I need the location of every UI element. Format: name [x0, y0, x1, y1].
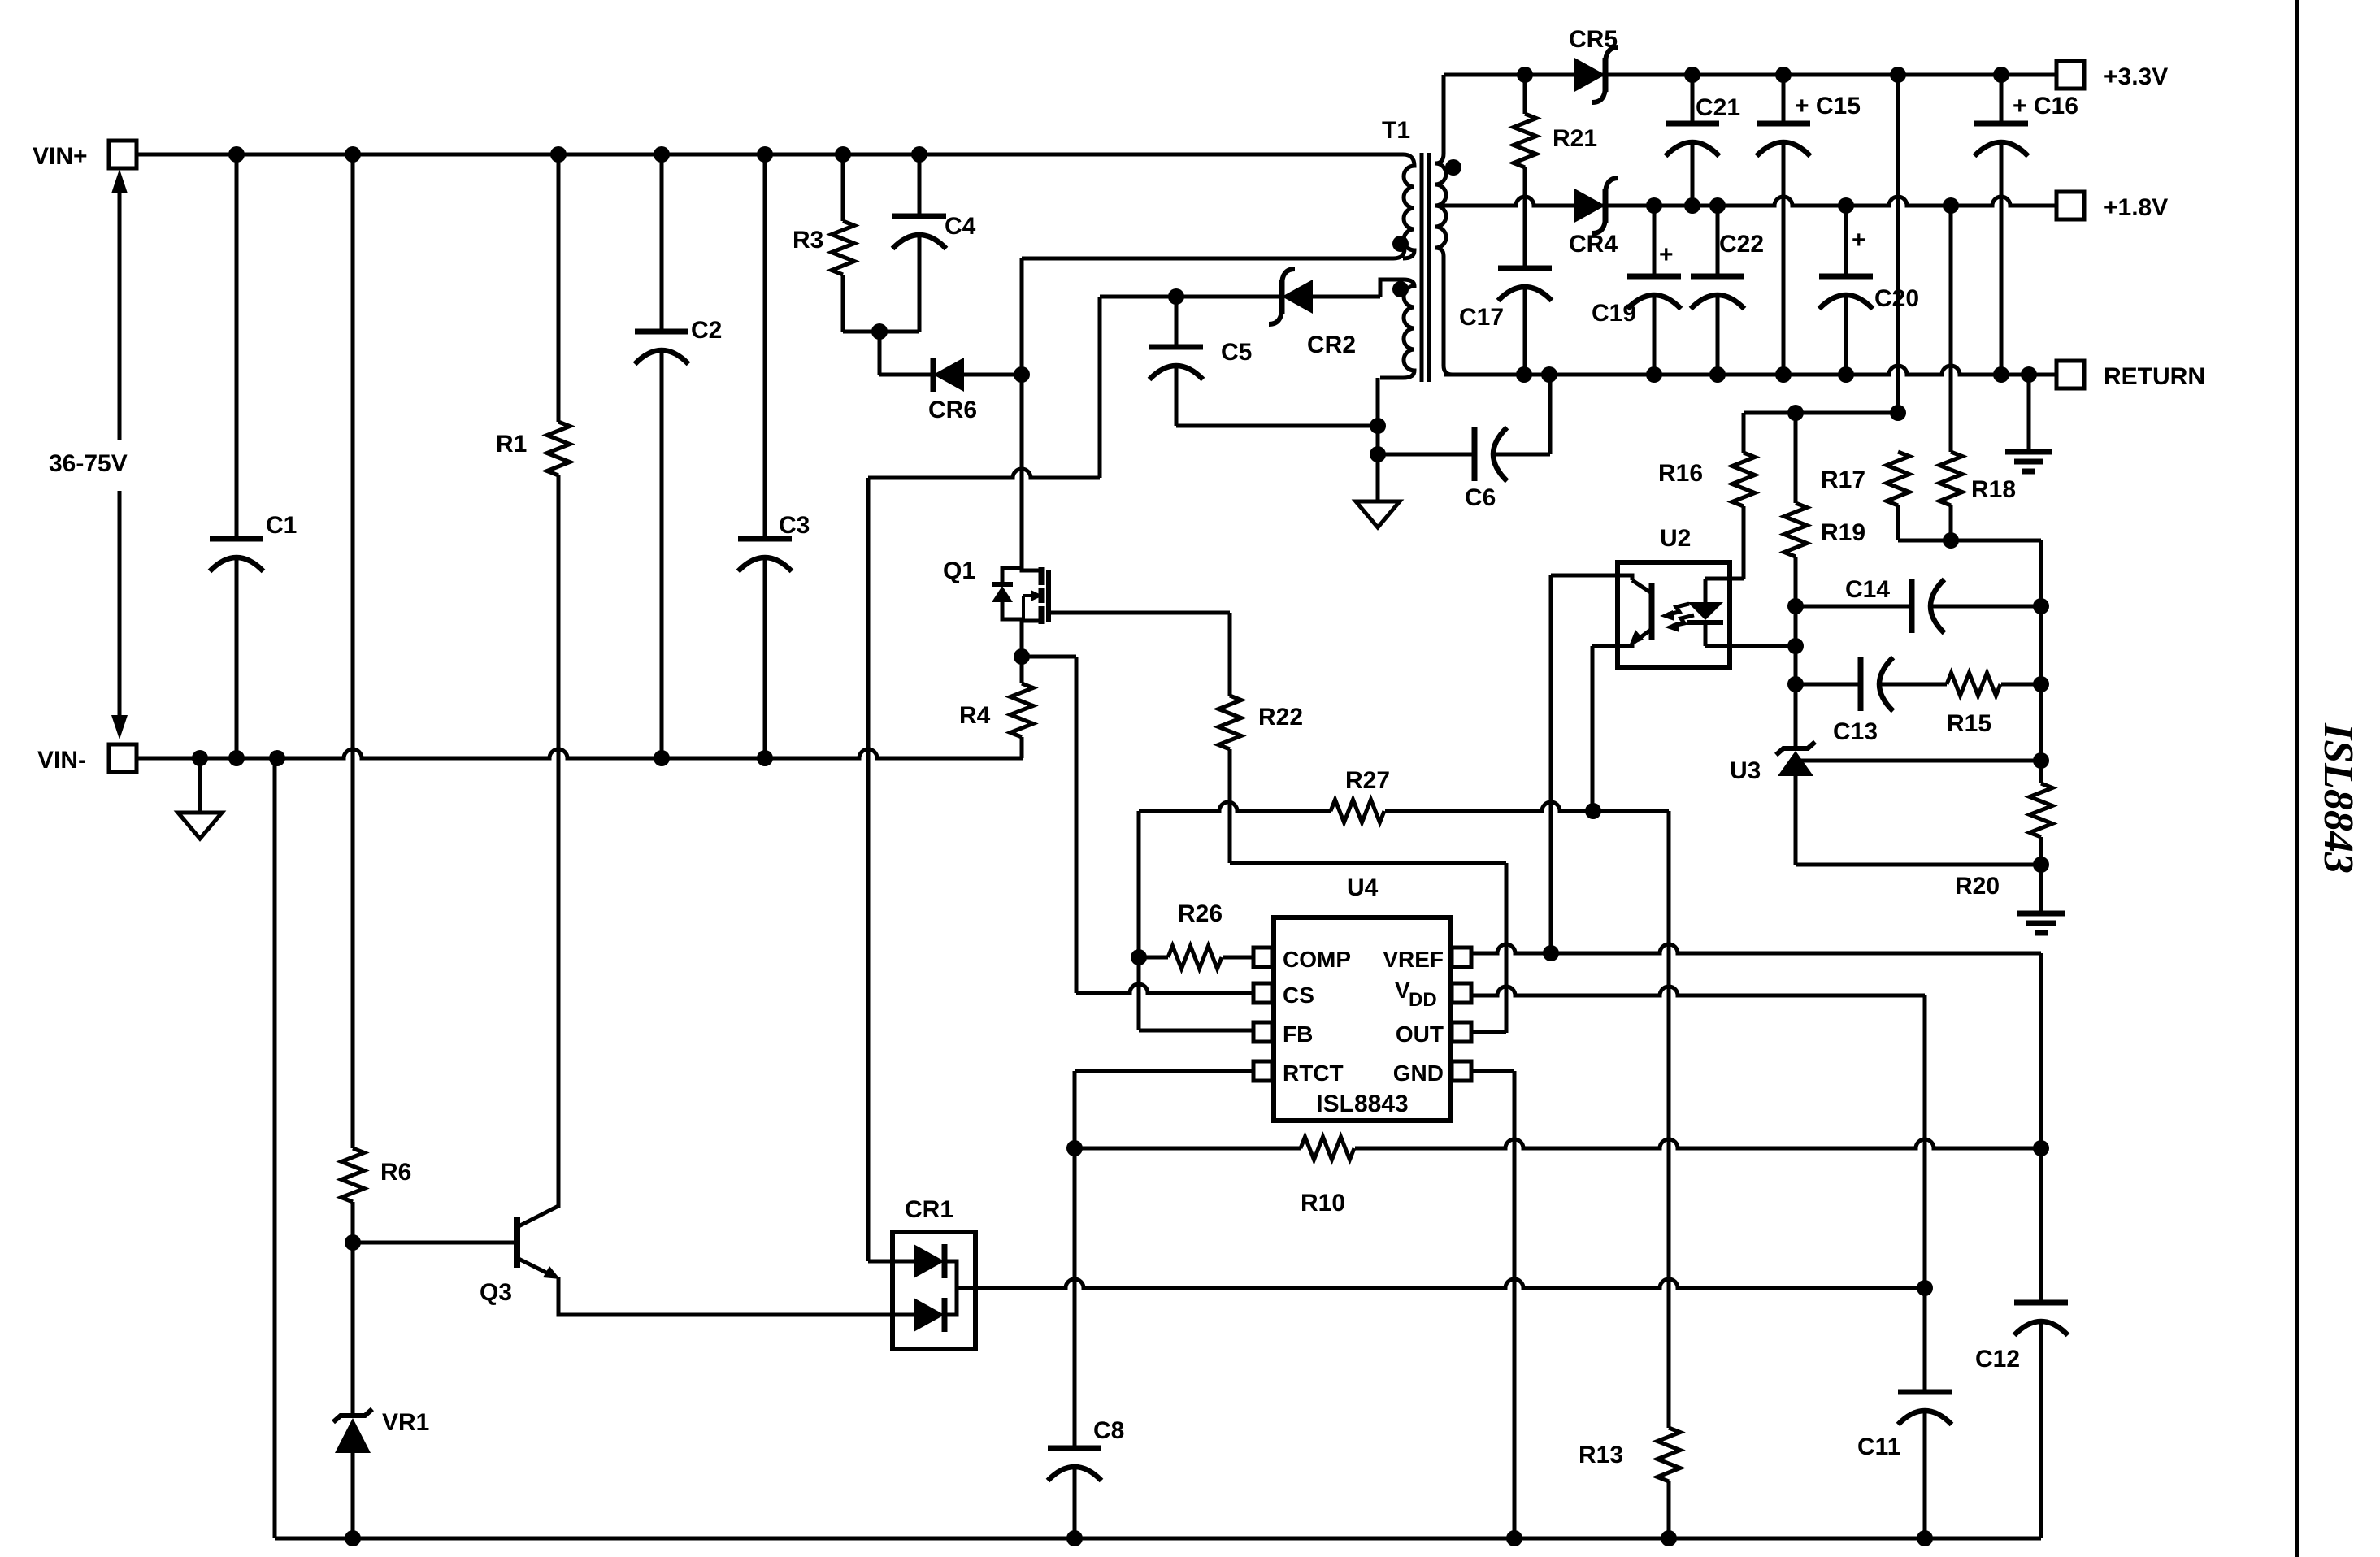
pin label COMP [1283, 947, 1351, 972]
wire R17 riser [1896, 75, 1900, 413]
wire R17R18 bottom [1898, 540, 2041, 606]
capacitor C11 [1857, 1288, 1952, 1538]
node secondary phase dot [1445, 159, 1461, 176]
resistor R4 [959, 683, 1033, 758]
pin VDD [1452, 983, 1471, 1003]
svg-text:DD: DD [1409, 989, 1437, 1011]
svg-text:R26: R26 [1178, 900, 1223, 927]
svg-text:+1.8V: +1.8V [2104, 194, 2168, 221]
pin label VDD [1395, 978, 1437, 1011]
svg-text:R22: R22 [1258, 704, 1303, 731]
svg-text:OUT: OUT [1396, 1021, 1444, 1047]
svg-text:VIN-: VIN- [37, 747, 86, 774]
resistor R3 [793, 154, 879, 332]
pin VREF [1452, 948, 1471, 967]
optocoupler U2 [1618, 525, 1730, 667]
resistor R17 [1821, 452, 1909, 540]
svg-text:C2: C2 [691, 317, 722, 344]
node VIN- rail dots [192, 750, 773, 766]
dual diode CR1 [892, 1196, 975, 1349]
wire U2 emitter [1592, 644, 1632, 811]
svg-text:R3: R3 [793, 227, 823, 254]
svg-text:C4: C4 [945, 213, 976, 240]
node R15 right [2033, 676, 2049, 692]
wire Q3 base [353, 1241, 517, 1245]
terminal RETURN [2056, 361, 2205, 390]
pin label GND [1393, 1060, 1444, 1086]
wire secondary tap [1435, 204, 1440, 208]
svg-text:C8: C8 [1093, 1417, 1124, 1444]
svg-text:C11: C11 [1857, 1433, 1900, 1460]
svg-text:CS: CS [1283, 982, 1314, 1008]
wire primary bottom [1022, 249, 1405, 258]
node 36-75V arrow [49, 169, 128, 739]
ground bias [1356, 501, 1400, 527]
svg-text:R10: R10 [1301, 1190, 1345, 1217]
node R10 right [2033, 1140, 2049, 1156]
svg-text:R27: R27 [1345, 767, 1390, 794]
svg-text:C22: C22 [1719, 231, 1764, 258]
svg-text:R19: R19 [1821, 519, 1865, 546]
wire U2 LED anode [1704, 579, 1708, 602]
svg-text:R4: R4 [959, 702, 991, 729]
svg-text:RTCT: RTCT [1283, 1060, 1344, 1086]
transistor Q3 [480, 1206, 560, 1306]
node CR6 anode [1014, 366, 1030, 383]
wire C5 bottom [1176, 424, 1378, 428]
transformer T1 bias winding [1380, 280, 1414, 378]
node C14 right [2033, 598, 2049, 614]
resistor R19 [1784, 413, 1865, 748]
svg-text:C6: C6 [1465, 484, 1496, 511]
svg-text:C14: C14 [1845, 576, 1890, 603]
node 3.3V dots [1517, 67, 2009, 83]
pin COMP [1253, 948, 1273, 967]
svg-text:C1: C1 [266, 512, 297, 539]
wire GND stub [1471, 1071, 1514, 1538]
pin OUT [1452, 1022, 1471, 1042]
capacitor C1 [210, 154, 297, 758]
pin RTCT [1253, 1061, 1273, 1081]
node bias C5 [1370, 418, 1386, 434]
node R3-C4 junction [871, 323, 888, 340]
svg-text:C21: C21 [1696, 94, 1740, 121]
svg-text:VR1: VR1 [382, 1409, 429, 1436]
capacitor C17 [1459, 268, 1552, 375]
pin label OUT [1396, 1021, 1444, 1047]
svg-text:C17: C17 [1459, 304, 1504, 331]
resistor R27 [1139, 767, 1593, 822]
wire FB-COMP vertical [1139, 811, 1253, 1030]
svg-text:C19: C19 [1592, 300, 1636, 327]
wire U3 cathode [1798, 759, 2041, 763]
transformer T1 primary winding [1382, 117, 1414, 258]
wire R27 to R13 [1593, 811, 1669, 1428]
transformer T1 secondary winding [1435, 75, 1453, 375]
svg-text:VIN+: VIN+ [33, 143, 88, 170]
wire Q3 collector [557, 1206, 561, 1210]
node Q3 base junction [345, 1234, 361, 1251]
capacitor C22 [1691, 206, 1764, 375]
svg-text:C5: C5 [1221, 339, 1252, 366]
node U3 anode right [2033, 857, 2049, 873]
resistor R10 [1075, 1137, 2041, 1217]
transformer core [1422, 153, 1429, 382]
capacitor C8 [1048, 1417, 1124, 1538]
shunt regulator U3 [1730, 684, 1815, 865]
svg-text:+: + [1852, 227, 1866, 254]
capacitor C2 [635, 154, 722, 758]
wire Q3 emitter [558, 1277, 914, 1315]
wire comp vertical [2039, 540, 2043, 783]
resistor R1 [496, 154, 570, 1208]
svg-text:R15: R15 [1947, 710, 1991, 737]
resistor R6 [341, 1148, 411, 1416]
wire R22 to OUT [1230, 863, 1506, 1033]
IC U4 box [1274, 874, 1451, 1121]
node CR2-C5 [1168, 288, 1184, 305]
svg-text:R21: R21 [1553, 125, 1597, 152]
svg-text:U2: U2 [1660, 525, 1691, 552]
wire ground stub [198, 758, 202, 813]
wire VREF line [1471, 944, 2041, 1303]
svg-text:C13: C13 [1833, 718, 1878, 745]
terminal +3.3V [2056, 61, 2168, 90]
node R18 bottom [1943, 532, 1959, 549]
wire RTCT line [1075, 1071, 1253, 1448]
svg-text:R18: R18 [1971, 476, 2016, 503]
wire RETURN rail [1444, 366, 2056, 375]
node RTCT-R10 [1066, 1140, 1083, 1156]
svg-text:ISL8843: ISL8843 [2315, 722, 2361, 874]
wire bottom rail [275, 1537, 2041, 1541]
node U3 cathode right [2033, 752, 2049, 769]
resistor R13 [1579, 1428, 1680, 1538]
wire VIN- rail [137, 749, 1023, 758]
svg-text:+ C16: + C16 [2013, 93, 2078, 119]
svg-text:U3: U3 [1730, 757, 1761, 784]
node 1.8V dots [1646, 197, 1959, 214]
wire VIN+ top rail [137, 153, 1403, 157]
transistor Q1 [943, 557, 1049, 626]
resistor R22 [1218, 696, 1303, 863]
node top rail dots [228, 146, 927, 163]
node CR1-VDD [1917, 1280, 1933, 1296]
wire CS line [1076, 984, 1253, 993]
wire U2 collector [1551, 575, 1632, 953]
wire bias lower [1376, 378, 1380, 501]
svg-text:CR6: CR6 [928, 397, 977, 423]
ground RETURN [2005, 452, 2052, 471]
diode CR6 [928, 358, 977, 423]
svg-text:C3: C3 [779, 512, 810, 539]
capacitor C15 [1757, 75, 1861, 375]
wire Q1 drain [1020, 258, 1024, 565]
wire U2 LED cathode [1705, 622, 1796, 646]
svg-text:R13: R13 [1579, 1442, 1623, 1468]
svg-text:+3.3V: +3.3V [2104, 63, 2168, 90]
wire VDD line [1471, 987, 1925, 1392]
node primary phase dot [1392, 236, 1409, 252]
svg-text:R16: R16 [1658, 460, 1703, 487]
svg-text:Q1: Q1 [943, 557, 975, 584]
svg-text:R20: R20 [1955, 873, 2000, 900]
svg-text:CR1: CR1 [905, 1196, 953, 1223]
svg-text:ISL8843: ISL8843 [1316, 1091, 1408, 1117]
node Q1 source [1014, 622, 1030, 683]
svg-text:CR2: CR2 [1307, 332, 1356, 358]
IC name ISL8843 [1316, 1091, 1408, 1117]
node VREF-collector [1543, 945, 1559, 961]
wire CS/CR1 vertical [866, 478, 871, 1261]
terminal VIN+ [33, 141, 137, 170]
node R27 right [1585, 803, 1601, 819]
wire CR1 output [957, 1279, 1925, 1288]
pin label CS [1283, 982, 1314, 1008]
terminal +1.8V [2056, 192, 2168, 221]
resistor R20 [1955, 783, 2052, 900]
svg-text:VREF: VREF [1383, 947, 1444, 972]
node R19 dots [1787, 598, 1804, 692]
wire R20 ground stub [2039, 865, 2043, 913]
wire +3.3V rail [1444, 73, 2056, 77]
diode CR5 [1569, 26, 1618, 102]
wire gate line [1050, 613, 1230, 696]
node bias C6 [1370, 446, 1386, 462]
resistor R16 [1658, 413, 1755, 579]
resistor R26 [1139, 900, 1253, 969]
node bottom dots [345, 1530, 1933, 1546]
resistor R21 [1514, 75, 1597, 268]
terminal VIN- [37, 744, 137, 774]
wire OUT stub [1471, 1030, 1506, 1034]
capacitor C6 [1378, 375, 1550, 511]
svg-text:CR5: CR5 [1569, 26, 1618, 53]
wire +1.8V rail [1440, 197, 2056, 206]
svg-text:+: + [1659, 241, 1674, 268]
capacitor C13 [1796, 657, 1947, 745]
svg-text:C12: C12 [1975, 1346, 2020, 1373]
svg-text:U4: U4 [1347, 874, 1379, 901]
ground R20 [2017, 913, 2065, 933]
capacitor C21 [1666, 75, 1740, 206]
capacitor C3 [738, 154, 810, 758]
border line [2295, 0, 2299, 1557]
wire CR6 branch [879, 332, 1022, 375]
diode CR2 [1269, 269, 1356, 358]
svg-text:36-75V: 36-75V [49, 450, 128, 477]
node RETURN dots [1516, 366, 2037, 383]
wire left branch [351, 154, 355, 1148]
svg-text:Q3: Q3 [480, 1279, 512, 1306]
wire CR2 line [1100, 295, 1380, 299]
node R26 left [1131, 949, 1147, 965]
svg-text:GND: GND [1393, 1060, 1444, 1086]
wire CR1 top entry [868, 1260, 914, 1264]
zener VR1 [333, 1409, 429, 1538]
svg-text:FB: FB [1283, 1021, 1313, 1047]
svg-text:RETURN: RETURN [2104, 363, 2205, 390]
capacitor C19 [1592, 206, 1681, 375]
capacitor C4 [879, 154, 976, 332]
node divider dots [1787, 405, 1906, 421]
svg-text:COMP: COMP [1283, 947, 1351, 972]
wire C5 left drop [868, 297, 1100, 478]
svg-text:R1: R1 [496, 431, 527, 458]
wire RETURN gnd stub [2027, 375, 2031, 452]
pin label VREF [1383, 947, 1444, 972]
capacitor C14 [1796, 576, 2041, 633]
capacitor C5 [1149, 297, 1252, 426]
wire U3 anode [1796, 863, 2041, 867]
wire source to CS [1022, 657, 1076, 993]
diode CR4 [1569, 178, 1618, 258]
svg-text:R17: R17 [1821, 466, 1865, 493]
node bias phase dot [1392, 281, 1409, 297]
wire divider top line [1744, 411, 1898, 415]
ground [178, 813, 222, 839]
wire left drop [273, 758, 277, 1538]
resistor R15 [1947, 673, 2041, 737]
svg-text:T1: T1 [1382, 117, 1410, 144]
capacitor C20 [1819, 206, 1919, 375]
svg-text:+ C15: + C15 [1795, 93, 1861, 119]
svg-text:CR4: CR4 [1569, 231, 1618, 258]
capacitor C12 [1975, 1148, 2068, 1538]
pin FB [1253, 1022, 1273, 1042]
capacitor C16 [1974, 75, 2078, 375]
pin CS [1253, 983, 1273, 1003]
pin label RTCT [1283, 1060, 1344, 1086]
resistor R18 [1939, 206, 2016, 540]
title ISL8843 [2315, 722, 2361, 874]
pin label FB [1283, 1021, 1313, 1047]
pin GND [1452, 1061, 1471, 1081]
svg-text:R6: R6 [380, 1159, 411, 1186]
